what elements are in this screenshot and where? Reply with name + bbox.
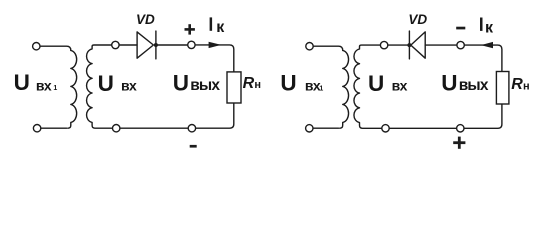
svg-text:вх: вх — [36, 78, 52, 94]
terminal: left circuit input top — [33, 43, 40, 50]
wire: diode VD2 anode to minus node — [425, 44, 457, 46]
svg-text:VD: VD — [408, 12, 427, 27]
resistor R1 body — [227, 72, 241, 103]
svg-text:U: U — [173, 70, 189, 95]
transformer T1 primary winding — [68, 50, 77, 128]
wire: node A to diode anode — [119, 44, 137, 46]
svg-text:к: к — [485, 19, 494, 36]
current arrow Ik left circuit (points right) — [209, 42, 222, 48]
resistor R2 body — [496, 72, 509, 105]
node B: secondary bottom output terminal — [113, 125, 120, 132]
wire: left circuit primary bottom lead — [41, 127, 66, 129]
wire: bottom return minus node to node B — [120, 127, 188, 129]
terminal: left circuit input bottom — [33, 125, 40, 132]
node: plus output terminal (right) — [457, 125, 464, 132]
junction dot at diode VD2 cathode — [407, 43, 411, 47]
svg-text:VD: VD — [136, 12, 155, 27]
node: minus output terminal (right) — [457, 41, 464, 48]
svg-text:вх: вх — [121, 78, 137, 94]
current arrow Ik right circuit (points left) — [481, 42, 493, 48]
wire: resistor R2 bottom lead — [464, 104, 502, 128]
terminal: right circuit input bottom — [306, 125, 313, 132]
wire: resistor R1 bottom lead — [196, 103, 234, 128]
svg-text:U: U — [98, 71, 114, 96]
node C: secondary top output terminal (right) — [380, 41, 387, 48]
label + (right bottom polarity) — [453, 137, 465, 149]
wire: right circuit primary top lead — [314, 46, 343, 50]
wire: plus node to resistor top corner — [195, 45, 234, 72]
svg-text:1: 1 — [319, 85, 323, 92]
svg-text:R: R — [511, 76, 523, 93]
svg-text:вх: вх — [392, 78, 408, 94]
svg-text:U: U — [368, 71, 384, 96]
wire: right circuit primary bottom lead — [313, 127, 338, 129]
junction dot at diode VD1 cathode — [154, 43, 158, 47]
svg-text:U: U — [280, 70, 296, 95]
diode VD2 cathode bar — [408, 31, 410, 59]
label I (current) — [210, 17, 213, 30]
label I (current, right) — [480, 18, 483, 31]
svg-text:н: н — [254, 79, 261, 91]
node A: secondary top output terminal — [112, 41, 119, 48]
svg-text:вых: вых — [459, 77, 489, 94]
diode VD1 triangle — [137, 32, 153, 58]
transformer T2 secondary winding — [354, 45, 382, 128]
wire: node D to secondary bottom — [381, 127, 383, 129]
diode VD1 cathode bar — [155, 31, 157, 59]
label + (left top polarity) — [185, 24, 195, 34]
transformer T1 secondary winding — [87, 45, 113, 128]
node D: secondary bottom output terminal (right) — [382, 125, 389, 132]
svg-text:н: н — [523, 81, 530, 93]
node: plus output terminal — [188, 41, 195, 48]
svg-text:1: 1 — [53, 85, 57, 92]
svg-text:к: к — [216, 19, 225, 36]
wire: left circuit primary top lead — [40, 46, 70, 50]
terminal: right circuit input top — [306, 43, 313, 50]
diode VD2 triangle — [411, 32, 425, 58]
wire: node C to diode VD2 cathode — [388, 44, 410, 46]
svg-text:вых: вых — [190, 77, 220, 94]
svg-text:R: R — [243, 75, 255, 92]
wire: diode VD1 cathode to plus node — [156, 44, 188, 46]
svg-text:U: U — [441, 70, 457, 95]
label - (right top polarity) — [456, 27, 465, 30]
label - (left bottom polarity) — [190, 145, 197, 148]
wire: node B to secondary bottom — [111, 127, 113, 129]
wire: minus node to resistor top corner — [465, 45, 502, 71]
svg-text:U: U — [14, 70, 30, 95]
node: minus output terminal — [188, 125, 195, 132]
wire: bottom return plus node to node D — [389, 127, 457, 129]
transformer T2 primary winding — [340, 50, 349, 128]
